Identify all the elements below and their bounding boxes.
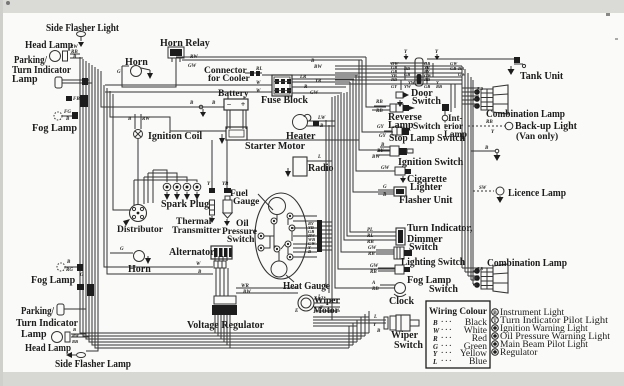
svg-text:Heat Gauge: Heat Gauge (283, 281, 331, 292)
svg-text:L: L (317, 155, 321, 160)
svg-text:W R L B: W R L B (214, 309, 235, 315)
svg-text:−: − (227, 100, 232, 109)
svg-text:LW: LW (317, 116, 326, 121)
svg-text:Horn: Horn (125, 57, 148, 68)
svg-text:Regulator: Regulator (500, 348, 538, 358)
svg-text:B: B (66, 260, 71, 265)
svg-text:RL: RL (256, 67, 262, 72)
svg-text:Side Flasher Light: Side Flasher Light (46, 23, 120, 34)
svg-text:RB: RB (376, 100, 383, 105)
svg-text:B: B (319, 124, 324, 129)
svg-text:B: B (382, 193, 387, 198)
svg-text:Lamp: Lamp (388, 120, 414, 131)
svg-text:SW: SW (479, 186, 487, 191)
svg-text:Wiper: Wiper (314, 296, 340, 306)
svg-text:Wiring Colour: Wiring Colour (429, 307, 488, 317)
svg-text:E: E (294, 309, 299, 314)
svg-text:G: G (383, 185, 387, 190)
svg-text:Lighter: Lighter (410, 182, 443, 193)
svg-text:BW: BW (371, 155, 380, 160)
svg-text:Switch: Switch (409, 242, 438, 253)
svg-text:RB: RB (370, 270, 377, 275)
svg-text:Ignition Coil: Ignition Coil (148, 131, 202, 142)
svg-text:B: B (484, 146, 489, 151)
svg-text:YR: YR (315, 79, 322, 84)
svg-text:GW: GW (368, 246, 377, 251)
svg-text:Lamp: Lamp (12, 74, 38, 85)
svg-text:G: G (80, 273, 84, 278)
svg-text:FB: FB (73, 97, 80, 102)
svg-text:GY: GY (379, 134, 387, 139)
svg-text:Licence Lamp: Licence Lamp (508, 188, 566, 199)
svg-text:RB: RB (477, 266, 483, 271)
svg-text:RW: RW (72, 333, 80, 338)
svg-text:RB: RB (368, 252, 375, 257)
svg-text:RB: RB (458, 66, 464, 71)
svg-text:B: B (65, 117, 70, 122)
svg-text:RB: RB (477, 86, 483, 91)
svg-text:Fog Lamp: Fog Lamp (32, 123, 77, 134)
svg-text:B: B (380, 143, 385, 148)
svg-text:GB: GB (404, 72, 410, 77)
svg-text:Side Flasher Lamp: Side Flasher Lamp (55, 359, 131, 370)
svg-text:FG: FG (64, 110, 71, 115)
svg-text:R: R (432, 335, 438, 343)
svg-text:RB: RB (424, 77, 430, 82)
svg-text:· · ·: · · · (441, 349, 452, 357)
svg-text:GW: GW (310, 91, 319, 96)
svg-text:Horn Relay: Horn Relay (160, 38, 210, 49)
svg-text:· · ·: · · · (441, 326, 452, 334)
svg-text:RW: RW (142, 117, 150, 122)
svg-text:Back-up Light: Back-up Light (515, 121, 578, 132)
svg-text:RB: RB (486, 120, 493, 125)
svg-text:B: B (127, 117, 132, 122)
svg-text:Lamp: Lamp (444, 129, 467, 139)
svg-text:Flasher Unit: Flasher Unit (399, 195, 453, 206)
svg-text:Lamp: Lamp (21, 329, 47, 340)
svg-text:B: B (376, 329, 381, 334)
svg-text:Starter Motor: Starter Motor (245, 141, 306, 152)
svg-text:RB: RB (72, 339, 78, 344)
svg-text:B: B (432, 319, 438, 327)
svg-text:Combination Lamp: Combination Lamp (486, 109, 565, 120)
svg-text:Switch: Switch (429, 284, 458, 295)
svg-text:RB: RB (436, 84, 442, 89)
svg-text:for Cooler: for Cooler (208, 74, 251, 84)
svg-text:GW: GW (458, 72, 466, 77)
svg-text:L: L (373, 315, 377, 320)
svg-text:Parking/: Parking/ (21, 306, 54, 317)
svg-text:G: G (117, 70, 121, 75)
svg-text:W: W (256, 81, 261, 86)
svg-text:BW: BW (313, 65, 322, 70)
svg-text:GW: GW (370, 264, 379, 269)
svg-text:A: A (371, 281, 376, 286)
svg-text:RB: RB (376, 109, 383, 114)
svg-text:Combination Lamp: Combination Lamp (487, 258, 567, 269)
svg-text:(Van only): (Van only) (516, 131, 558, 142)
svg-text:RL: RL (367, 234, 373, 239)
svg-text:Voltage Regulator: Voltage Regulator (187, 320, 265, 331)
svg-text:B: B (189, 101, 194, 106)
svg-text:RB: RB (404, 66, 410, 71)
svg-text:W: W (433, 327, 440, 335)
svg-text:· · ·: · · · (441, 318, 452, 326)
svg-text:Battery: Battery (218, 89, 249, 99)
svg-text:GB: GB (450, 66, 456, 71)
svg-text:BW: BW (242, 290, 251, 295)
svg-text:Spark Plug: Spark Plug (161, 199, 209, 210)
svg-text:T: T (493, 318, 497, 324)
svg-text:Radio: Radio (308, 163, 334, 174)
svg-text:GW: GW (381, 166, 390, 171)
svg-text:RB: RB (391, 77, 397, 82)
svg-text:Turn Indicator: Turn Indicator (16, 318, 79, 329)
svg-text:BY: BY (376, 149, 384, 154)
svg-text:Y: Y (433, 350, 438, 358)
svg-text:B: B (310, 59, 315, 64)
svg-text:Head Lamp: Head Lamp (25, 343, 71, 354)
svg-text:B: B (197, 270, 202, 275)
svg-text:Switch: Switch (412, 96, 441, 107)
svg-text:Distributor: Distributor (117, 225, 164, 235)
svg-text:Alternator: Alternator (169, 247, 215, 258)
svg-text:RB: RB (372, 287, 379, 292)
svg-text:GW: GW (188, 64, 197, 69)
svg-text:G: G (120, 247, 124, 252)
svg-text:GY: GY (377, 125, 385, 130)
svg-text:Switch: Switch (394, 340, 423, 351)
svg-text:WR: WR (241, 284, 249, 289)
svg-text:Turn Indicator,: Turn Indicator, (407, 223, 473, 234)
svg-text:YB: YB (222, 182, 229, 187)
svg-text:Clock: Clock (389, 296, 414, 307)
svg-text:Ignition Switch: Ignition Switch (398, 157, 464, 168)
svg-text:Fuse Block: Fuse Block (261, 95, 308, 106)
svg-text:Head Lamp: Head Lamp (25, 40, 73, 51)
svg-text:Transmitter: Transmitter (172, 226, 222, 236)
svg-text:Lighting Switch: Lighting Switch (401, 257, 465, 268)
svg-text:Gauge: Gauge (233, 197, 259, 207)
svg-text:B: B (211, 101, 216, 106)
svg-text:Tank Unit: Tank Unit (520, 71, 564, 82)
svg-text:Switch: Switch (413, 122, 441, 132)
svg-text:PL: PL (367, 228, 373, 233)
svg-text:Horn: Horn (128, 264, 151, 275)
svg-text:B: B (307, 249, 311, 254)
svg-text:RB: RB (367, 240, 374, 245)
svg-text:Switch: Switch (227, 235, 255, 245)
svg-text:B: B (493, 310, 497, 316)
svg-text:· · ·: · · · (441, 357, 452, 365)
svg-text:B: B (72, 55, 77, 60)
svg-text:Motor: Motor (313, 306, 340, 316)
svg-text:· · ·: · · · (441, 334, 452, 342)
svg-text:W: W (196, 262, 201, 267)
svg-text:L: L (432, 358, 437, 366)
svg-text:Blue: Blue (469, 357, 487, 367)
svg-text:LR: LR (299, 75, 307, 80)
svg-text:W: W (256, 89, 261, 94)
svg-text:+: + (241, 100, 246, 109)
svg-text:RW: RW (190, 55, 198, 60)
svg-text:RG: RG (66, 268, 73, 273)
svg-text:Fog Lamp: Fog Lamp (31, 275, 76, 286)
